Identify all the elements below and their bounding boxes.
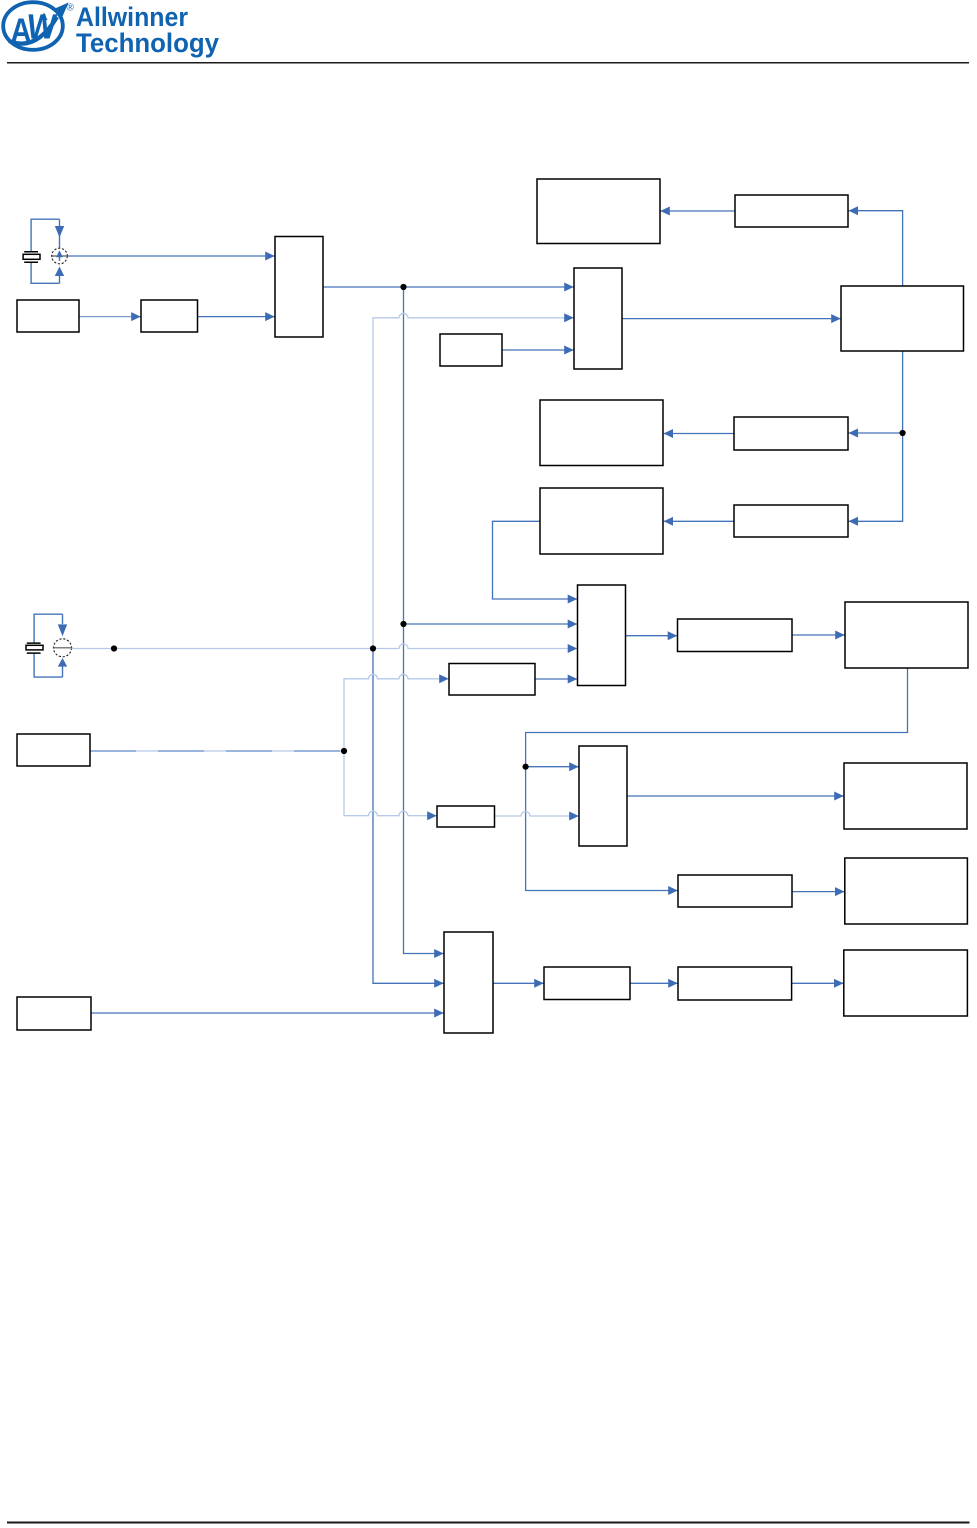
box SELA (449, 664, 535, 696)
osc2 feedback loop wire (34, 614, 62, 677)
wire dark drop from osc2 junction to mux5 input 2 (373, 649, 444, 984)
junction dot on osc2 line near oscillator (111, 645, 117, 651)
wire box SMA to mux2 input 3 (502, 349, 574, 351)
box BA (540, 400, 663, 466)
wire mux4 output to box B6 (627, 795, 844, 797)
wire mux1 output to mux2 input 1 (323, 286, 574, 288)
wire box AHB1 bottom long path to box B5 (526, 668, 908, 891)
box AHB1 (845, 602, 968, 668)
wire pale osc2 output to mux3 input 3 (72, 644, 578, 649)
footer rule (7, 1522, 970, 1524)
svg-text:Technology: Technology (76, 28, 219, 58)
wire box ST1 to box BT (661, 210, 736, 212)
wire mux5 output to box B8 (493, 982, 544, 984)
box B7 (845, 858, 968, 924)
osc2 down arrowhead (58, 624, 67, 636)
box B5 (678, 875, 792, 907)
wire box BL output to junction (90, 750, 344, 752)
wire mux3 output to box B4 (626, 635, 678, 637)
junction dot mux4 feed (523, 764, 529, 770)
osc1 down arrowhead (55, 226, 64, 238)
header rule (7, 62, 969, 64)
osc1 circle diameter line (51, 255, 68, 257)
junction dot BR column (900, 430, 906, 436)
osc1 feedback loop wire (31, 219, 59, 283)
wire pale riser to mux2 input 2 (32k) (373, 313, 574, 648)
wire box SELB to mux4 input 2 (495, 812, 579, 817)
box BB (540, 488, 663, 554)
mux5 (444, 932, 493, 1033)
osc2 top shaft wire (62, 614, 64, 624)
crystal X2 body (26, 645, 43, 650)
osc2 bottom shaft wire (62, 666, 64, 677)
wire box B5 to box B7 (792, 891, 844, 893)
wire branch to box ST2 (849, 432, 903, 434)
wire box BB left to mux3 input 1 (493, 521, 578, 599)
osc1 top shaft wire (59, 219, 61, 248)
wire osc1 output to mux1 input 1 (68, 255, 275, 257)
wire pale branch down to box SELB (344, 751, 437, 816)
mux2 (574, 268, 622, 369)
box BR (841, 286, 964, 351)
wire box B1 to box B2 (79, 316, 141, 318)
wire branch to mux4 input 1 (526, 766, 579, 768)
wire box SELA to mux3 input 4 (535, 678, 577, 680)
osc1 up arrowhead (55, 267, 64, 277)
wire box B9 to mux5 input 3 (91, 1012, 444, 1014)
logo swoosh arrow (9, 3, 69, 44)
junction dot mux1 output (400, 284, 406, 290)
mux4 (579, 746, 627, 846)
wire box B4 to box AHB1 (792, 634, 845, 636)
wire box BR bottom down to box ST3 (849, 351, 903, 521)
box SMA (440, 334, 502, 366)
wire box ST2 to box BA (664, 433, 734, 435)
osc2 source circle (54, 639, 72, 657)
crystal X2 plates (27, 643, 41, 653)
junction dot osc2 line riser (370, 645, 376, 651)
box B1 (17, 300, 79, 332)
wire pale branch up to box SELA (344, 674, 449, 751)
wire mux2 output to box BR (622, 318, 841, 320)
wire trunk vertical from mux1 output junction down to mux5 input 1 (404, 287, 444, 954)
wire box B8 to box B10 (630, 982, 678, 984)
osc1 source circle (52, 248, 68, 264)
wire box B2 to mux1 input 2 (198, 316, 275, 318)
svg-text:®: ® (67, 3, 75, 14)
box B10 (678, 967, 792, 1000)
box ST1 (735, 195, 848, 227)
junction dot BL output (341, 748, 347, 754)
osc2 up arrowhead (58, 658, 67, 667)
box B4 (678, 619, 793, 652)
wire branch to mux3 input 2 (404, 623, 578, 625)
box ST3 (734, 505, 848, 537)
box B8 (544, 967, 630, 1000)
osc2 circle diameter line (53, 647, 73, 649)
osc1 bottom shaft wire (59, 275, 61, 284)
mux1 (275, 237, 323, 338)
box ST2 (734, 417, 848, 450)
wire box BR top to box ST1 (849, 211, 903, 286)
box B11 (844, 950, 968, 1016)
Allwinner logo ellipse ring (3, 2, 63, 50)
box SELB (437, 806, 495, 827)
crystal X1 plates (24, 252, 38, 262)
box B2 (141, 300, 198, 332)
box BL (17, 734, 90, 766)
wire box ST3 to box BB (664, 520, 734, 522)
box BT (537, 179, 660, 244)
box B9 (17, 997, 91, 1030)
wire box B10 to box B11 (792, 982, 844, 984)
junction dot trunk to mux3 (400, 621, 406, 627)
crystal X1 body (23, 254, 40, 259)
box B6 (844, 763, 967, 829)
mux3 (578, 585, 626, 686)
osc1 inner arrow (56, 250, 63, 260)
